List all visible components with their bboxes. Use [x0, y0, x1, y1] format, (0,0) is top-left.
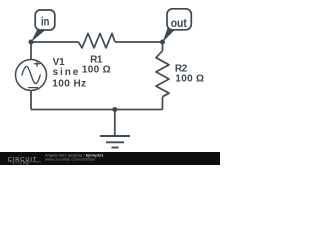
svg-text:100 Ω: 100 Ω — [175, 74, 204, 85]
svg-text:sine: sine — [53, 67, 81, 78]
svg-text:100 Hz: 100 Hz — [52, 78, 86, 89]
svg-text:in: in — [41, 17, 49, 29]
svg-text:100 Ω: 100 Ω — [82, 65, 111, 76]
svg-text:out: out — [171, 18, 187, 30]
svg-text:∿—LAB: ∿—LAB — [12, 162, 29, 165]
svg-text:www.circuitlab.com/c6665pk: www.circuitlab.com/c6665pk — [45, 157, 95, 162]
